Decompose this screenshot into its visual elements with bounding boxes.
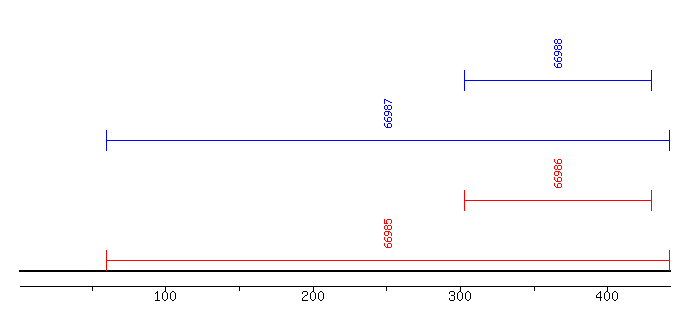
hit 66987 right cap bbox=[669, 130, 670, 151]
major tick 100 bbox=[165, 287, 166, 292]
minor tick 250 bbox=[386, 287, 387, 291]
minor tick 150 bbox=[239, 287, 240, 291]
hit 66988 left cap bbox=[464, 70, 465, 91]
hit 66987 left cap bbox=[106, 130, 107, 151]
axis label 100 bbox=[155, 291, 176, 301]
major tick 200 bbox=[313, 287, 314, 292]
hit 66988 label bbox=[554, 39, 562, 68]
hit 66986 span line bbox=[464, 200, 652, 201]
hit 66988 span line bbox=[464, 80, 652, 81]
hit 66986 right cap bbox=[651, 190, 652, 211]
hit 66987 label bbox=[384, 99, 392, 128]
axis label 400 bbox=[596, 291, 618, 301]
major tick 300 bbox=[460, 287, 461, 292]
hit 66988 right cap bbox=[651, 70, 652, 91]
hit 66986 left cap bbox=[464, 190, 465, 211]
hit 66985 right cap bbox=[669, 250, 670, 271]
axis line bbox=[20, 286, 671, 287]
axis label 200 bbox=[302, 291, 324, 301]
hit 66986 label bbox=[554, 159, 562, 188]
hit 66985 span line bbox=[106, 260, 670, 261]
hit 66987 span line bbox=[106, 140, 670, 141]
query sequence thick line bbox=[19, 270, 671, 272]
axis label 300 bbox=[449, 291, 471, 301]
hit 66985 label bbox=[384, 219, 392, 248]
minor tick 350 bbox=[534, 287, 535, 291]
minor tick 50 bbox=[92, 287, 93, 291]
hit 66985 left cap bbox=[106, 250, 107, 271]
major tick 400 bbox=[607, 287, 608, 292]
